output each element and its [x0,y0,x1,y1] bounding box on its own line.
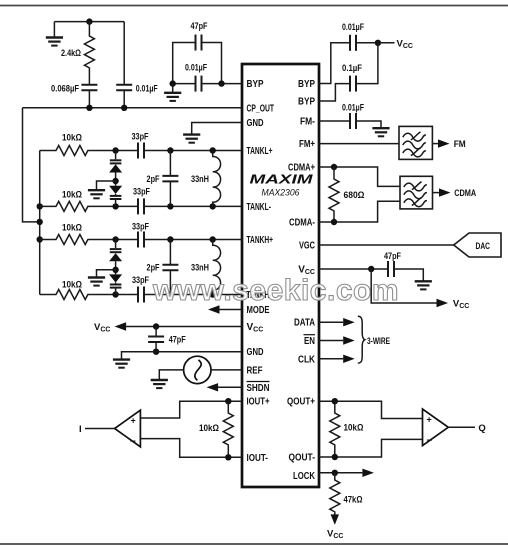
ground (REF) [151,380,168,388]
node row4 inductor tap [210,291,216,297]
svg-text:CDMA+: CDMA+ [288,163,315,174]
svg-text:10kΩ: 10kΩ [62,133,82,144]
wire QOUT+ feed [319,401,423,418]
svg-text:IOUT+: IOUT+ [247,397,270,408]
svg-text:VCC: VCC [453,299,469,311]
svg-text:SHDN: SHDN [247,383,270,394]
pin BYP (right 1) [298,79,315,90]
bottom border rule [0,543,508,545]
wire QOUT- feed [319,439,423,457]
pin VGC [299,241,315,252]
pin IOUT- [247,453,269,464]
capacitor C3 47pF (BYP loop top) [173,21,222,84]
svg-text:33pF: 33pF [132,222,149,233]
svg-text:0.01µF: 0.01µF [136,84,158,95]
ground (47pF right) [415,281,432,289]
pin CDMA+ [288,163,315,174]
ground (BYP loop) [164,84,181,101]
pin LOCK [293,471,316,482]
node Vcc left junction [153,323,159,329]
capacitor C9 33pF (row TANKH-) [116,275,242,302]
svg-text:FM: FM [454,139,466,150]
node Vcc top junction [375,40,381,46]
arrow SHDN [207,383,242,391]
capacitor C2 0.01uF [116,22,158,108]
svg-text:BYP: BYP [247,79,264,90]
capacitor C11 0.01uF (BYP right top) [319,22,378,84]
varactor D1 (upper pair top) [109,151,122,182]
pin REF [247,365,263,376]
pin CDMA- [289,218,315,229]
svg-text:0.1µF: 0.1µF [342,63,362,74]
wire CDMA+ feed [319,167,400,186]
svg-text:DATA: DATA [294,318,315,329]
DAC block [454,233,501,257]
svg-text:VCC: VCC [94,322,110,334]
svg-text:DAC: DAC [476,241,491,252]
pin GND (left top) [247,118,264,129]
node row3 varactor tap [112,236,118,242]
pin BYP (left) [247,79,264,90]
svg-text:10kΩ: 10kΩ [199,423,219,434]
resistor R5 10k ohm (row TANKH-) [40,280,116,300]
ground (varactor pair1) [88,181,116,198]
arrow to CDMA output [433,188,477,199]
wire CP_OUT to RC network [23,107,243,109]
pin TANKH+ [247,235,274,246]
svg-text:GND: GND [247,347,264,358]
node row3 inductor tap [210,236,216,242]
svg-text:TANKL+: TANKL+ [247,146,273,157]
node row4 varactor tap [112,291,118,297]
svg-text:MAXIM: MAXIM [250,172,315,187]
node Vcc right junction [368,266,374,272]
svg-text:33pF: 33pF [133,187,150,198]
svg-text:VCC: VCC [327,529,343,541]
svg-text:QOUT-: QOUT- [289,453,316,464]
svg-text:0.01µF: 0.01µF [342,102,364,113]
resistor R1 2.4k ohm [61,22,94,85]
pin TANKL- [247,202,272,213]
svg-text:IOUT-: IOUT- [247,453,269,464]
capacitor C1 0.068uF [51,84,97,108]
capacitor C12 0.1uF (BYP right 2) [319,43,378,101]
node QOUT+ junction [332,398,338,404]
node row1 inductor tap [210,147,216,153]
pin GND (left bottom) [247,347,264,358]
svg-text:EN: EN [304,336,315,347]
svg-text:−: − [427,435,433,446]
svg-text:0.068µF: 0.068µF [51,84,79,95]
pin SHDN with overline [247,382,270,394]
pin IOUT+ [247,397,270,408]
arrow EN [319,336,355,344]
svg-text:2pF: 2pF [147,174,160,185]
wire left inner rail [39,151,41,295]
svg-text:47pF: 47pF [191,21,208,32]
wire IOUT- feed [140,439,242,458]
oscillator (REF source) [159,356,242,383]
wire VGC to DAC [319,244,454,246]
varactor D4 (lower pair bottom) [109,270,122,295]
capacitor C10 2pF (tank H) [147,240,179,295]
pin BYP (right 2) [298,97,315,108]
pin QOUT+ [287,397,315,408]
arrow down to Vcc (bottom) [327,514,343,540]
pin MODE [247,305,270,316]
capacitor C8 33pF (row TANKH+) [116,222,242,248]
svg-text:10kΩ: 10kΩ [344,423,364,434]
wire I output [79,424,115,435]
svg-text:www.seekic.com: www.seekic.com [152,274,399,307]
node row2 inductor tap [210,203,216,209]
capacitor C13 0.01uF (FM-) [319,102,381,129]
node junction C2 bottom [121,105,127,111]
MAXIM logo [250,172,315,187]
node row4 2pF tap [167,291,173,297]
pin FM- [300,117,315,128]
node QOUT- junction [332,454,338,460]
svg-text:I: I [79,424,82,435]
arrow + net Vcc (left) [94,322,242,334]
inductor L1 33nH (tank L) [191,151,221,207]
svg-text:0.01µF: 0.01µF [342,22,364,33]
wire LOCK [319,472,362,474]
node junction R1 top [86,18,92,24]
svg-text:47pF: 47pF [169,335,186,346]
MAX2306 part number label [262,188,301,199]
pin DATA [294,318,315,329]
resistor R2 10k ohm (row TANKL+) [40,133,116,156]
wire top-left horizontal [54,21,124,23]
svg-text:CP_OUT: CP_OUT [247,103,275,114]
svg-text:GND: GND [247,118,264,129]
svg-text:BYP: BYP [298,79,315,90]
svg-text:VCC: VCC [397,38,413,50]
ground (chip GND top pin) [183,123,242,143]
svg-text:47kΩ: 47kΩ [344,495,363,506]
capacitor C5 33pF (row TANKL+) [116,132,242,159]
arrow to FM output [432,139,465,150]
svg-text:REF: REF [247,365,263,376]
node row2 2pF tap [167,203,173,209]
arrow LOCK out [362,469,374,477]
op-amp U2 (Q output) [423,409,449,446]
arrow MODE [208,305,242,313]
node row3 2pF tap [167,236,173,242]
svg-text:FM+: FM+ [299,139,315,150]
svg-text:33nH: 33nH [191,263,209,274]
svg-text:+: + [131,416,136,426]
node IOUT- junction [225,454,231,460]
node row2 varactor tap [112,203,118,209]
wire FM+ to filter [319,143,399,145]
svg-text:VGC: VGC [299,241,315,252]
resistor R4 10k ohm (row TANKH+) [40,223,116,245]
node LOCK junction [332,470,338,476]
capacitor C4 0.01uF (to BYP pin) [173,63,242,92]
resistor R3 10k ohm (row TANKL-) [40,190,116,212]
node junction BYP loop right [218,80,224,86]
node junction BYP loop left [170,80,176,86]
wire IOUT+ feed [140,401,242,418]
svg-text:47pF: 47pF [384,251,401,262]
node CDMA- junction [331,219,337,225]
capacitor C6 33pF (row TANKL-) [116,187,242,215]
svg-text:33pF: 33pF [132,132,149,143]
pin TANKL+ [247,146,273,157]
varactor D2 (upper pair bottom) [109,181,122,206]
IC U1 MAX2306 body [242,64,319,487]
svg-text:10kΩ: 10kΩ [62,190,82,201]
svg-text:−: − [130,437,136,448]
op-amp U3 (I output) [115,410,141,447]
node varactor pair1 mid [112,178,118,184]
node row1 varactor tap [112,147,118,153]
pin VCC (left) [247,322,264,334]
top border rule [0,5,508,7]
node rail row2 [37,203,43,209]
filter FL1 (FM bandpass) [399,126,432,159]
capacitor C15 47pF (left Vcc) [148,327,186,352]
node rail cp join [37,219,43,225]
wire left outer rail [23,108,40,222]
capacitor C7 2pF (tank L) [147,151,179,207]
arrow CLK [319,355,355,363]
svg-text:CDMA-: CDMA- [289,218,315,229]
node IOUT+ junction [225,398,231,404]
ground (varactor pair2) [88,270,116,286]
pin EN with overline [304,335,316,347]
svg-text:3-WIRE: 3-WIRE [367,336,390,347]
pin TANKH- [247,290,272,301]
capacitor C14 47pF (Vcc right) [319,251,423,281]
node CDMA+ junction [331,164,337,170]
node rail row3 [37,236,43,242]
svg-text:2pF: 2pF [147,263,160,274]
node GND row junction [153,349,159,355]
node varactor pair2 mid [112,267,118,273]
resistor R6 680 ohm [329,167,365,222]
svg-text:0.01µF: 0.01µF [185,63,207,74]
svg-text:QOUT+: QOUT+ [287,397,315,408]
resistor R8 47k ohm [330,473,363,516]
svg-text:LOCK: LOCK [293,471,316,482]
pin QOUT- [289,453,316,464]
inductor L2 33nH (tank H) [191,240,221,295]
svg-text:FM-: FM- [300,117,315,128]
arrow DATA [319,318,355,326]
svg-text:10kΩ: 10kΩ [62,280,82,291]
watermark www.seekic.com [152,274,399,307]
svg-text:CLK: CLK [298,354,316,365]
node row1 2pF tap [167,147,173,153]
svg-text:+: + [427,414,432,424]
wire Q output [448,423,485,434]
varactor D3 (lower pair top) [109,240,122,270]
wire CDMA- feed [319,201,400,222]
pin FM+ [299,139,315,150]
svg-text:CDMA: CDMA [454,188,476,199]
pin VCC (right) [298,265,315,277]
resistor R9 10k ohm (IOUT) [199,401,233,457]
svg-text:33pF: 33pF [132,275,149,286]
svg-text:2.4kΩ: 2.4kΩ [61,48,81,59]
brace 3-WIRE [358,316,390,363]
pin CP_OUT [247,103,275,114]
ground (FM- cap) [372,128,389,136]
svg-text:TANKH+: TANKH+ [247,235,274,246]
svg-text:BYP: BYP [298,97,315,108]
svg-text:680Ω: 680Ω [344,190,365,201]
svg-text:33nH: 33nH [191,174,209,185]
svg-text:MAX2306: MAX2306 [262,188,301,199]
net Vcc (top right) [378,38,413,50]
filter FL2 (CDMA bandpass) [400,176,433,209]
node junction C1 bottom [86,105,92,111]
pin CLK [298,354,316,365]
ground (GND pin lower) [113,352,242,368]
svg-text:Q: Q [478,423,485,434]
ground (top-left) [46,22,63,46]
svg-text:10kΩ: 10kΩ [62,223,82,234]
resistor R7 10k ohm (QOUT) [330,401,364,457]
svg-text:TANKL-: TANKL- [247,202,272,213]
arrow to Vcc (right mid) [371,269,469,310]
